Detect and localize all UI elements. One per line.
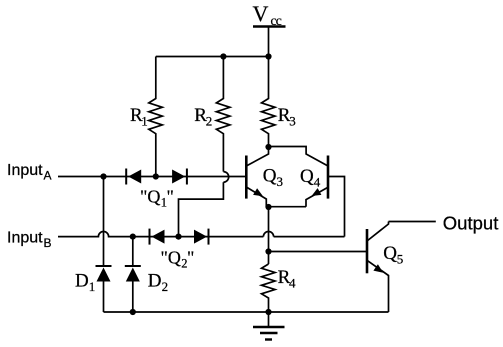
svg-text:"Q: "Q: [140, 187, 160, 207]
svg-text:2: 2: [206, 113, 213, 128]
junction R2 / Q2 diodes: [175, 234, 181, 240]
svg-text:3: 3: [289, 113, 296, 128]
ground symbol: [253, 312, 285, 340]
svg-text:D: D: [148, 271, 162, 292]
svg-text:A: A: [44, 169, 52, 183]
svg-text:": ": [187, 248, 194, 268]
junction Q5 base: [265, 248, 271, 254]
svg-text:Input: Input: [7, 162, 43, 179]
label R4: [278, 267, 296, 290]
label Input B: [7, 230, 52, 251]
svg-text:1: 1: [141, 113, 148, 128]
label R2: [194, 105, 212, 128]
wire input B line with hops: [58, 232, 345, 237]
label "Q2": [161, 248, 195, 271]
diode D1: [96, 177, 112, 313]
junction R1 / Q1 diodes: [153, 173, 159, 179]
transistor Q3: [246, 147, 268, 207]
junction R4 / ground: [265, 309, 271, 315]
svg-text:V: V: [253, 1, 269, 26]
wire R2 to Q2 junction: [179, 182, 224, 236]
diode Q2 left (emitter): [150, 229, 165, 245]
svg-text:4: 4: [314, 175, 321, 190]
wire main vertical to R4: [268, 207, 270, 264]
node Vcc label: [253, 1, 282, 28]
label Input A: [7, 162, 52, 183]
label "Q1": [140, 187, 174, 210]
svg-text:3: 3: [277, 174, 284, 189]
label Q3: [263, 166, 283, 190]
svg-text:5: 5: [397, 252, 404, 267]
svg-text:Q: Q: [263, 166, 277, 187]
wire top supply rail: [156, 56, 269, 58]
wire input A line: [58, 176, 246, 178]
junction rail/R3/Vcc: [265, 53, 271, 59]
wire Q4 base to Q2 output: [328, 177, 345, 237]
svg-text:Q: Q: [300, 166, 314, 187]
label D2: [148, 271, 168, 295]
junction D2 / ground: [130, 309, 136, 315]
svg-text:Q: Q: [383, 243, 397, 264]
diode Q1 left (emitter): [126, 169, 141, 185]
label D1: [75, 271, 95, 295]
svg-text:B: B: [44, 236, 52, 250]
junction R3 / collectors: [265, 144, 271, 150]
svg-text:Input: Input: [7, 230, 43, 247]
svg-text:"Q: "Q: [161, 248, 181, 268]
junction input B / D2: [130, 234, 136, 240]
wire ground rail: [104, 311, 389, 313]
wire Q5 base: [269, 251, 368, 253]
resistor R4: [262, 264, 276, 312]
power Vcc symbol: [253, 27, 286, 57]
junction input A / D1: [100, 173, 106, 179]
transistor Q4: [269, 147, 329, 207]
diode Q2 right (collector): [194, 229, 209, 245]
resistor R2: [216, 57, 230, 172]
wire output: [389, 221, 436, 223]
label Q4: [300, 166, 321, 190]
svg-text:D: D: [75, 271, 89, 292]
transistor Q5: [367, 222, 389, 313]
wire common emitter link: [266, 206, 306, 208]
svg-text:4: 4: [289, 275, 296, 290]
svg-text:1: 1: [89, 279, 96, 294]
label R1: [130, 105, 148, 128]
resistor R3: [262, 57, 276, 148]
label Q5: [383, 243, 403, 267]
svg-text:2: 2: [162, 279, 169, 294]
svg-text:": ": [167, 187, 174, 207]
label R3: [278, 105, 296, 128]
junction rail/R2: [220, 53, 226, 59]
junction emitters / R4: [265, 204, 271, 210]
diode Q1 right (collector): [172, 169, 187, 185]
wire hop over main vertical: [263, 232, 273, 237]
diode D2: [125, 237, 141, 312]
resistor R1: [149, 57, 163, 177]
svg-text:Output: Output: [443, 212, 499, 233]
wire R2 hop over input A line: [223, 172, 228, 183]
